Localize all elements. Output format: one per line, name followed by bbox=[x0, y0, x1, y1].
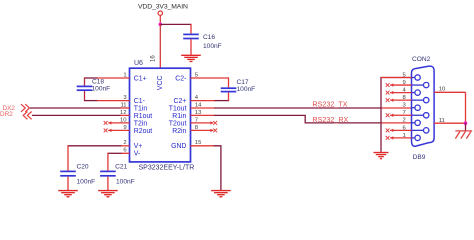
C16 bottom lead bbox=[190, 39, 192, 54]
svg-text:DR2: DR2 bbox=[0, 111, 13, 118]
no-connect X DB9 pin 8 bbox=[386, 98, 390, 102]
C18 top lead bbox=[84, 77, 86, 85]
C17 top lead bbox=[228, 77, 230, 87]
pin 4 stub (NC) bbox=[390, 92, 411, 94]
svg-text:C2-: C2- bbox=[175, 75, 186, 82]
svg-text:10: 10 bbox=[439, 86, 446, 92]
junction VDD node bbox=[159, 23, 163, 27]
wire RS232_RX bbox=[214, 115, 382, 123]
wire RS232_TX to DB9 pin3 bbox=[381, 107, 412, 109]
pin 2 stub bbox=[121, 145, 130, 147]
wire pin10 down bbox=[465, 92, 467, 123]
C16 top lead bbox=[190, 24, 192, 34]
pin 9 stub (NC) bbox=[390, 84, 411, 86]
pin 11 stub bbox=[434, 122, 465, 124]
no-connect X DB9 pin 1 bbox=[386, 136, 390, 140]
op-amp/IC U6 SP3232EEY body bbox=[130, 68, 191, 162]
wire DX2 to T1in bbox=[30, 107, 121, 109]
svg-text:C16: C16 bbox=[203, 34, 215, 41]
capacitor C16 bbox=[183, 34, 199, 38]
svg-text:V-: V- bbox=[134, 151, 141, 158]
wire V- to C21 bbox=[108, 152, 122, 154]
pin 7 stub (NC) bbox=[390, 114, 411, 116]
no-connect X DB9 pin 9 bbox=[386, 83, 390, 87]
capacitor C17 bbox=[221, 88, 237, 91]
svg-text:100nF: 100nF bbox=[203, 43, 222, 50]
connector CON2 DB9 body bbox=[412, 66, 435, 146]
no-connect X pin 10 bbox=[104, 121, 108, 125]
wire VDD circle to junction bbox=[159, 15, 161, 24]
pin 13 stub bbox=[191, 114, 215, 116]
svg-text:100nF: 100nF bbox=[77, 179, 96, 186]
pin 10 stub (NC) bbox=[108, 122, 129, 124]
wire C17 to pin4 bbox=[214, 100, 229, 102]
C21 top lead bbox=[107, 153, 109, 171]
pin 7 stub (NC) bbox=[191, 122, 214, 124]
svg-text:R2in: R2in bbox=[172, 128, 186, 135]
wire VDD to pin16 (upper) bbox=[159, 24, 161, 60]
pin 8 stub (NC) bbox=[191, 129, 214, 131]
wire V+ to C20 bbox=[68, 145, 122, 147]
ground (pin 15) bbox=[211, 191, 231, 197]
no-connect X pin 8 bbox=[213, 129, 217, 133]
C21 bottom lead bbox=[107, 177, 109, 190]
svg-text:2: 2 bbox=[403, 118, 406, 124]
svg-text:C1-: C1- bbox=[134, 98, 145, 105]
ground (DB9 shell) bbox=[374, 153, 389, 159]
earth ground (chassis) bbox=[455, 131, 472, 139]
ground (C16) bbox=[181, 55, 201, 61]
pin 15 stub bbox=[191, 145, 215, 147]
pin 3 stub bbox=[97, 100, 130, 102]
no-connect X DB9 pin 7 bbox=[386, 113, 390, 117]
junction shield node bbox=[464, 121, 468, 125]
svg-text:GND: GND bbox=[171, 143, 186, 150]
pin 1 stub bbox=[97, 77, 130, 79]
svg-text:C2+: C2+ bbox=[174, 98, 187, 105]
wire RS232_TX bbox=[214, 107, 381, 109]
ground (C20) bbox=[58, 191, 78, 197]
svg-text:T1out: T1out bbox=[169, 105, 187, 112]
no-connect X pin 9 bbox=[104, 129, 108, 133]
wire GND15 to ground bbox=[214, 146, 221, 190]
wire VDD branch to C16 bbox=[160, 23, 191, 25]
wire shield to earth bbox=[465, 123, 467, 130]
svg-text:RS232_RX: RS232_RX bbox=[312, 115, 348, 124]
C20 bottom lead bbox=[67, 177, 69, 190]
svg-text:C21: C21 bbox=[115, 163, 127, 170]
pin 9 stub (NC) bbox=[108, 129, 129, 131]
pin 14 stub bbox=[191, 107, 215, 109]
svg-text:C1+: C1+ bbox=[134, 75, 147, 82]
wire DB9 pin5 to ground bus bbox=[381, 78, 412, 152]
pin 1 stub (NC) bbox=[390, 137, 411, 139]
svg-text:R1in: R1in bbox=[172, 113, 186, 120]
port chevron DR2 (in) bbox=[27, 112, 31, 120]
pin 5 stub (DB9) bbox=[381, 77, 412, 79]
wire pin1 to C18 bbox=[85, 77, 98, 79]
svg-text:100nF: 100nF bbox=[237, 86, 256, 93]
svg-text:T2in: T2in bbox=[134, 120, 148, 127]
svg-text:V+: V+ bbox=[134, 143, 143, 150]
C20 top lead bbox=[67, 145, 69, 170]
ground (C21) bbox=[98, 191, 118, 197]
C18 bottom lead bbox=[84, 91, 86, 101]
capacitor C21 bbox=[100, 171, 116, 175]
no-connect X DB9 pin 4 bbox=[386, 91, 390, 95]
pin 16 stub bbox=[159, 60, 161, 68]
svg-text:16: 16 bbox=[151, 55, 157, 62]
pin 8 stub (NC) bbox=[390, 99, 411, 101]
svg-text:C17: C17 bbox=[237, 79, 249, 86]
svg-text:U6: U6 bbox=[134, 60, 143, 67]
pin 10 stub bbox=[434, 91, 465, 93]
wire DR2 to R1out bbox=[32, 114, 121, 116]
svg-text:DB9: DB9 bbox=[413, 154, 426, 161]
capacitor C18 bbox=[77, 86, 93, 90]
no-connect X DB9 pin 6 bbox=[386, 128, 390, 132]
capacitor C20 bbox=[60, 171, 76, 175]
port chevron DX2 (out) bbox=[21, 104, 25, 112]
svg-text:R2out: R2out bbox=[134, 128, 152, 135]
pin 12 stub bbox=[121, 114, 130, 116]
svg-text:VCC: VCC bbox=[157, 75, 164, 90]
pin 11 stub bbox=[121, 107, 130, 109]
svg-text:T1in: T1in bbox=[134, 105, 148, 112]
wire C18 to pin3 bbox=[85, 100, 98, 102]
wire RS232_RX to DB9 pin2 bbox=[381, 122, 412, 124]
pin 4 stub bbox=[191, 100, 215, 102]
DB9 pin holes bbox=[412, 77, 416, 79]
svg-text:VDD_3V3_MAIN: VDD_3V3_MAIN bbox=[138, 4, 188, 11]
pin 5 stub / wire to C17 bbox=[191, 77, 229, 79]
svg-text:CON2: CON2 bbox=[412, 56, 431, 63]
svg-text:C20: C20 bbox=[77, 163, 89, 170]
svg-text:R1out: R1out bbox=[134, 113, 152, 120]
svg-text:C18: C18 bbox=[92, 79, 104, 86]
C17 bottom lead bbox=[228, 92, 230, 101]
pin 6 stub (NC) bbox=[390, 129, 411, 131]
svg-text:SP3232EEY-L/TR: SP3232EEY-L/TR bbox=[139, 164, 195, 171]
svg-text:T2out: T2out bbox=[169, 120, 187, 127]
svg-text:100nF: 100nF bbox=[116, 179, 135, 186]
pin 6 stub bbox=[121, 152, 130, 154]
no-connect X pin 7 bbox=[213, 121, 217, 125]
svg-text:RS232_TX: RS232_TX bbox=[312, 100, 347, 109]
svg-text:100nF: 100nF bbox=[92, 86, 111, 93]
